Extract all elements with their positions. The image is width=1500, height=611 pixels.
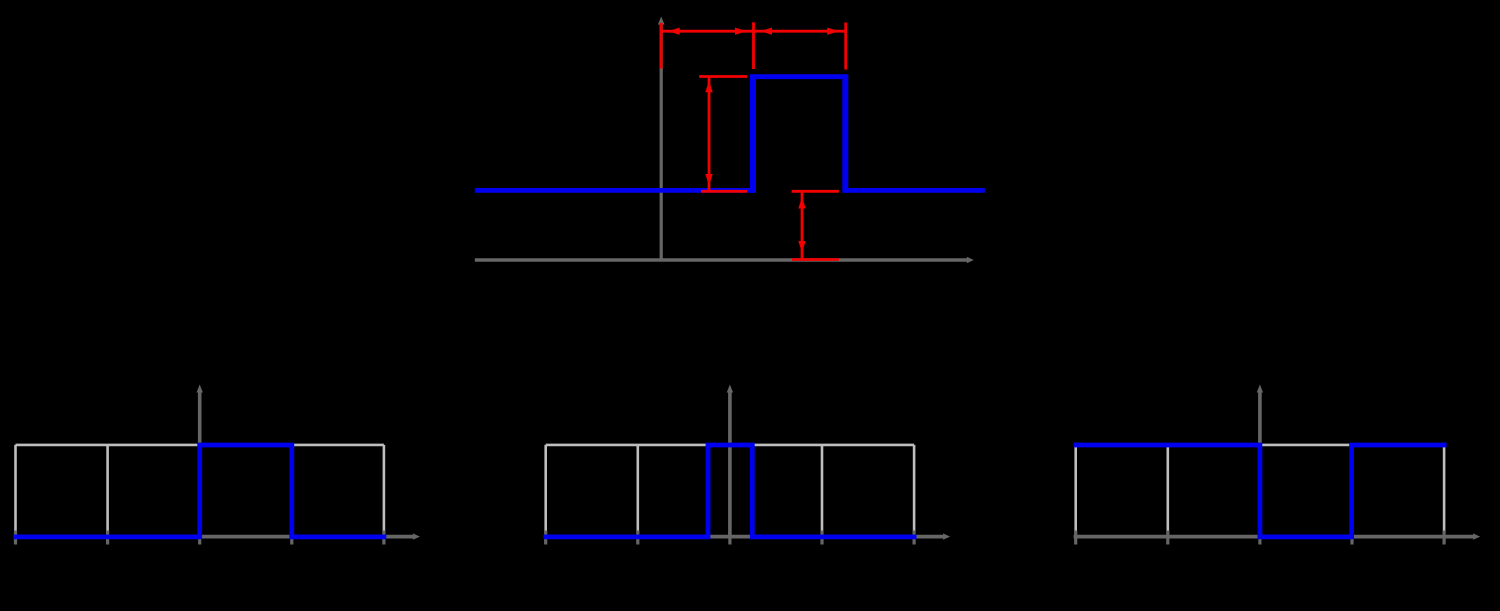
axis ticks (bottom-middle) <box>546 531 914 545</box>
bottom-middle diagram: narrow pulse square wave <box>544 385 951 545</box>
blue square wave 25% duty (bottom-left) <box>13 445 386 537</box>
bottom-left diagram: 25% duty cycle square wave <box>13 385 420 545</box>
blue square wave 75% duty (bottom-right) <box>1074 445 1447 537</box>
vertical axis (bottom-middle) <box>727 385 733 539</box>
vertical axis (top diagram) <box>658 17 665 262</box>
red tick on axis (dimension start) <box>660 23 663 69</box>
dimension arrow: pulse width <box>754 28 846 35</box>
horizontal axis (bottom-left) <box>13 533 420 539</box>
offset arrow (vertical double-headed) <box>798 192 805 259</box>
offset reference line (on axis) <box>792 258 839 261</box>
top diagram: pulse wave with dimension arrows <box>475 17 985 264</box>
period grid outline (bottom-right) <box>1076 445 1444 533</box>
dimension arrow: delay interval <box>661 28 753 35</box>
red tick at pulse right edge <box>844 23 847 70</box>
offset reference line (top) <box>792 190 839 193</box>
amplitude reference line (top) <box>699 75 747 78</box>
vertical axis (bottom-left) <box>197 385 203 539</box>
horizontal axis (bottom-middle) <box>544 533 951 539</box>
amplitude arrow (vertical double-headed) <box>705 78 712 191</box>
axis ticks (bottom-left) <box>16 531 384 545</box>
period grid outline (bottom-left) <box>16 445 384 533</box>
red tick at pulse left edge <box>752 22 755 69</box>
axis ticks (bottom-right) <box>1076 531 1444 545</box>
amplitude reference line (bottom, over baseline) <box>701 190 747 193</box>
blue square wave narrow pulse (bottom-middle) <box>544 445 917 537</box>
horizontal axis (top diagram) <box>475 257 974 263</box>
horizontal axis (bottom-right) <box>1074 533 1481 539</box>
vertical axis (bottom-right) <box>1257 385 1263 539</box>
bottom-right diagram: 75% duty cycle square wave <box>1074 385 1481 545</box>
period grid outline (bottom-middle) <box>546 445 914 533</box>
blue pulse waveform (top diagram) <box>475 74 985 193</box>
